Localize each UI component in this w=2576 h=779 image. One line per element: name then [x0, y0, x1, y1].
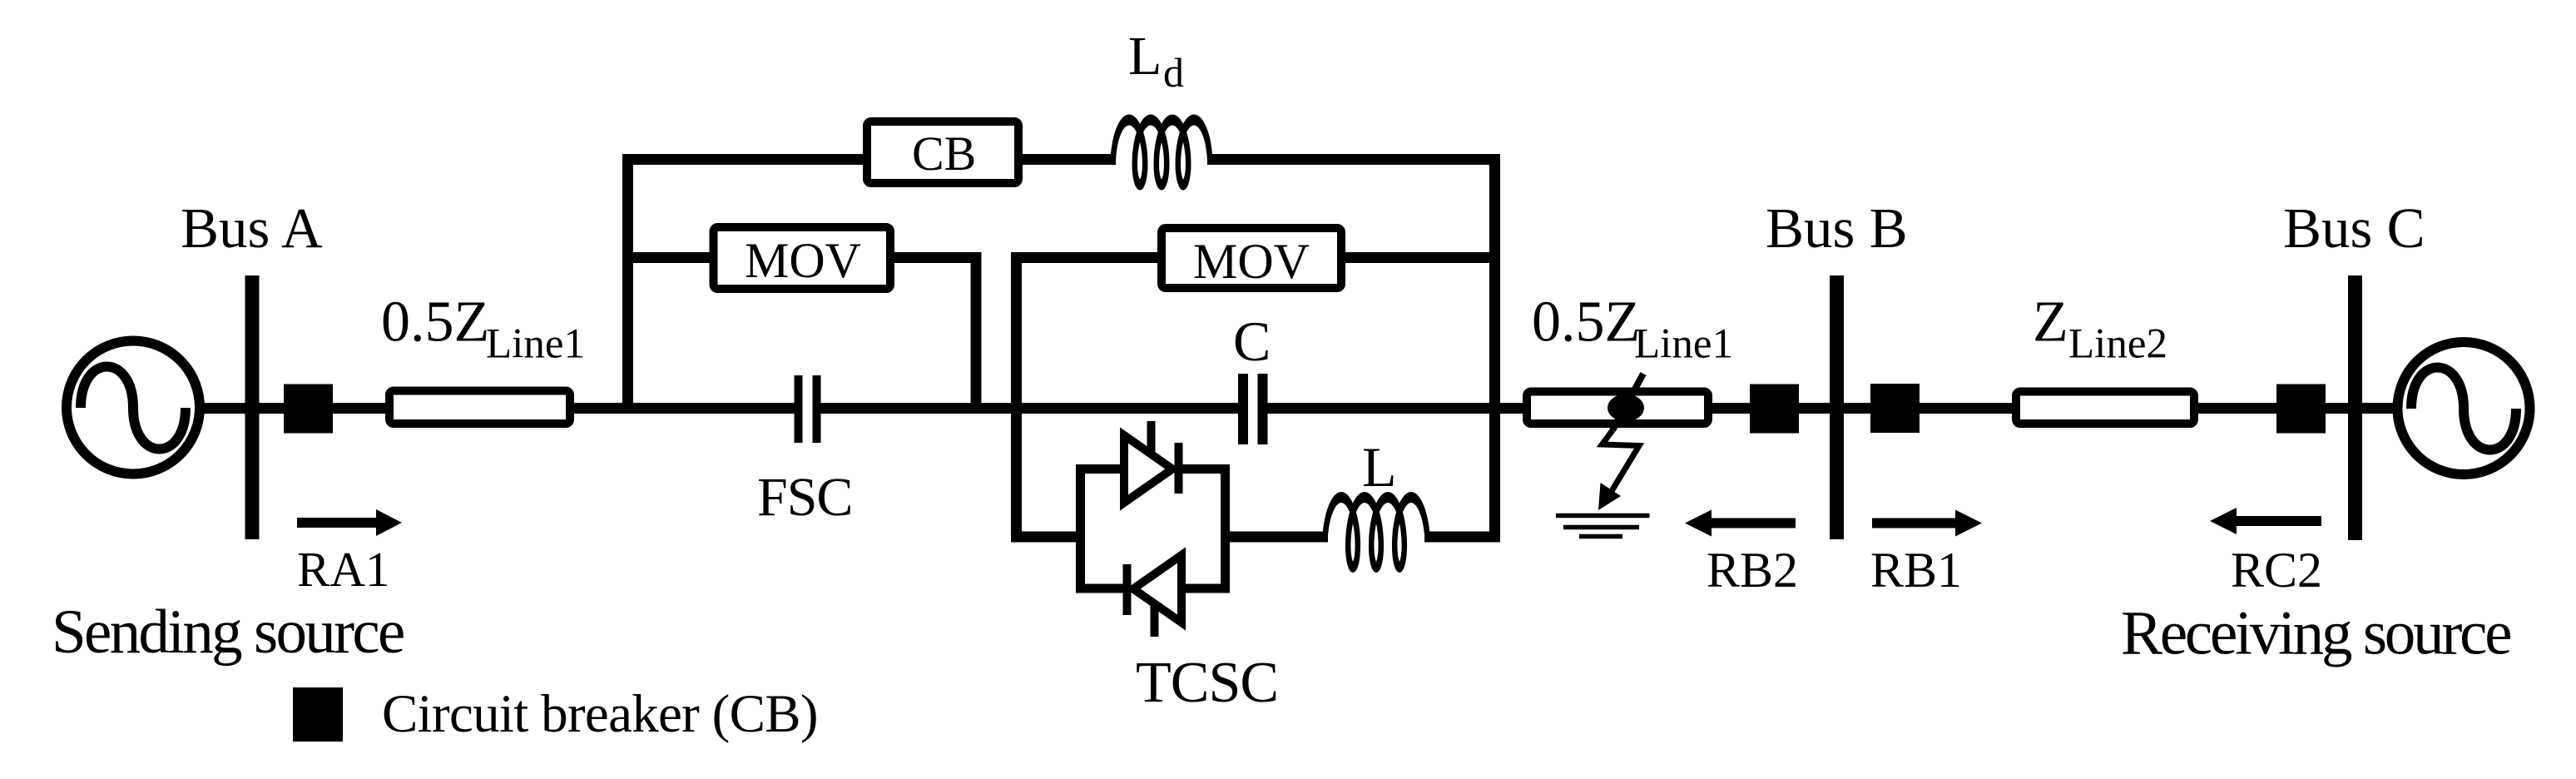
svg-text:0.5Z: 0.5Z: [1532, 290, 1640, 355]
svg-text:Bus B: Bus B: [1766, 196, 1908, 260]
svg-text:Bus C: Bus C: [2283, 196, 2425, 260]
svg-text:Line2: Line2: [2068, 321, 2167, 368]
svg-text:MOV: MOV: [745, 233, 861, 288]
svg-text:RB2: RB2: [1707, 543, 1798, 598]
svg-text:L: L: [1362, 435, 1397, 499]
svg-text:Receiving source: Receiving source: [2121, 599, 2510, 668]
svg-text:Circuit breaker (CB): Circuit breaker (CB): [382, 684, 818, 744]
svg-text:Bus A: Bus A: [181, 196, 323, 260]
svg-text:FSC: FSC: [757, 467, 852, 528]
svg-text:d: d: [1163, 49, 1184, 96]
svg-text:L: L: [1128, 26, 1162, 87]
svg-text:RA1: RA1: [297, 542, 389, 597]
svg-text:Z: Z: [2033, 290, 2068, 355]
svg-text:RC2: RC2: [2231, 543, 2322, 598]
svg-text:Sending source: Sending source: [52, 598, 404, 667]
svg-text:MOV: MOV: [1193, 234, 1310, 289]
svg-text:0.5Z: 0.5Z: [381, 290, 489, 355]
svg-text:C: C: [1233, 310, 1271, 373]
svg-text:RB1: RB1: [1870, 543, 1962, 598]
svg-text:Line1: Line1: [486, 321, 585, 368]
svg-text:Line1: Line1: [1634, 321, 1733, 368]
svg-text:TCSC: TCSC: [1136, 651, 1278, 715]
svg-text:CB: CB: [912, 127, 976, 181]
